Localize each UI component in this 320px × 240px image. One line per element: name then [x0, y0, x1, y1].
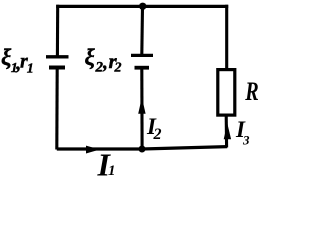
wire right vertical upper	[225, 5, 228, 70]
label I3	[235, 117, 250, 147]
wire bottom horizontal	[57, 147, 227, 149]
node bottom junction dot	[139, 146, 146, 153]
battery ξ1,r1 long plate	[46, 55, 69, 58]
wire top horizontal	[56, 5, 228, 8]
label ξ1,r1	[1, 45, 34, 77]
svg-text:2: 2	[153, 126, 162, 143]
wire middle vertical upper	[140, 6, 144, 55]
battery ξ2,r2 long plate	[131, 54, 153, 57]
resistor R box	[218, 70, 235, 116]
label I2	[146, 114, 162, 143]
node top junction dot	[139, 3, 146, 10]
arrow I1 head (right)	[86, 146, 100, 154]
svg-text:R: R	[244, 77, 258, 106]
svg-text:2: 2	[114, 61, 122, 76]
wire right vertical lower	[225, 115, 229, 147]
battery ξ1,r1 short plate	[49, 66, 65, 70]
arrow I2 head (up)	[138, 97, 145, 113]
wire left vertical upper	[56, 5, 59, 57]
svg-text:,: ,	[102, 52, 108, 74]
svg-text:1: 1	[108, 163, 116, 177]
label ξ2,r2	[85, 45, 122, 76]
wire left vertical lower	[55, 68, 59, 150]
svg-text:1: 1	[27, 62, 34, 77]
svg-text:ξ: ξ	[85, 45, 96, 70]
svg-text:3: 3	[242, 133, 250, 148]
label I1	[97, 146, 116, 182]
arrow I3 head (up)	[224, 123, 231, 139]
wire middle vertical lower	[140, 68, 143, 149]
battery ξ2,r2 short plate	[135, 66, 150, 70]
